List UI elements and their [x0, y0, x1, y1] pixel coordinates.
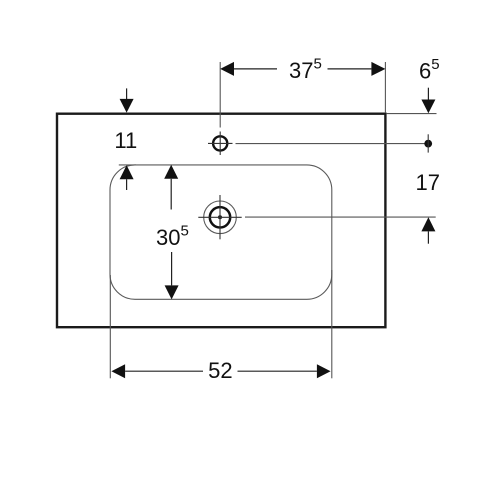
dim 30.5 down arrow: [171, 252, 173, 285]
dim 37.5 left arrow: [220, 62, 234, 76]
dim 30.5 up arrow: [164, 165, 178, 179]
dim 37.5 line segments: [234, 68, 277, 70]
faucet crosshair horizontal: [208, 142, 233, 144]
dim 37.5 right arrow: [371, 62, 385, 76]
dim 52: right extension line: [331, 270, 333, 378]
svg-text:305: 305: [156, 223, 189, 251]
dim 17 up arrow: [421, 217, 435, 231]
svg-text:65: 65: [419, 56, 440, 84]
dim 11 up arrow to basin edge: [120, 165, 134, 179]
dim 6.5 down arrow: [427, 88, 429, 100]
right reference dot: [424, 140, 432, 148]
drain center dot: [218, 215, 222, 219]
faucet hole circle: [213, 136, 227, 150]
svg-text:17: 17: [415, 170, 439, 195]
svg-text:375: 375: [289, 56, 322, 84]
dim 52 right arrow: [317, 364, 331, 378]
drain crosshair vertical: [219, 195, 221, 239]
top edge extension to right: [386, 113, 436, 115]
drain outer circle: [204, 201, 237, 234]
drain inner circle: [210, 207, 230, 227]
washbasin outer rectangle: [57, 114, 385, 328]
faucet extension line up: [219, 62, 221, 128]
faucet line to right dot: [236, 143, 425, 145]
svg-text:52: 52: [208, 358, 232, 383]
dim 11 down arrow above top edge: [126, 88, 128, 99]
dim 52 line segments: [125, 370, 203, 372]
faucet crosshair vertical: [219, 132, 221, 156]
drain crosshair horizontal: [198, 216, 241, 218]
dim 52 left arrow: [111, 364, 125, 378]
dim 52: left extension line: [109, 275, 111, 378]
svg-text:11: 11: [114, 128, 137, 153]
basin top edge extension (left of corner): [119, 164, 136, 166]
basin rounded rectangle: [110, 165, 332, 299]
dim 37.5: right extension line: [384, 62, 386, 113]
drain line to right: [245, 216, 436, 218]
